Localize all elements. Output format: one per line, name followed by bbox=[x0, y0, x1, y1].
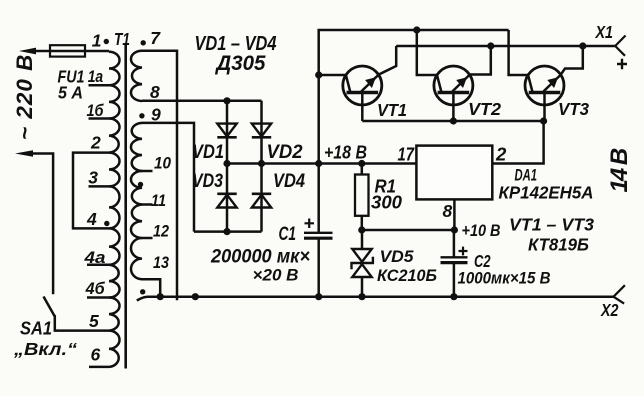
svg-text:5 А: 5 А bbox=[58, 83, 83, 103]
transformer T1 primary winding 1-6 bbox=[109, 52, 120, 86]
wire link tap 2 to tap 4 bbox=[73, 153, 109, 229]
fuse FU1 bbox=[50, 45, 85, 56]
svg-text:17: 17 bbox=[398, 144, 416, 165]
wire terminal 8 to bridge top rail bbox=[142, 100, 262, 103]
wire VT2 collector bbox=[417, 30, 437, 75]
wire VT3 collector bbox=[509, 30, 529, 75]
junction bridge top left bbox=[223, 97, 230, 104]
capacitor C1 bbox=[317, 164, 320, 233]
wire SA1 to T1 pin 5 bbox=[55, 315, 109, 331]
svg-text:1б: 1б bbox=[87, 102, 105, 120]
wire bridge right column bbox=[260, 101, 263, 232]
junction unnamed on X2 rail bbox=[192, 293, 199, 300]
junction VT2 collector on top rail bbox=[413, 26, 420, 33]
polarity dot winding 9 bbox=[139, 113, 144, 118]
polarity dot winding 13 bbox=[140, 289, 145, 294]
polarity dot winding 11 bbox=[138, 182, 143, 187]
wire bridge left column bbox=[226, 101, 229, 232]
diode VD3 bbox=[217, 195, 236, 208]
polarity dot winding 4 bbox=[104, 221, 109, 226]
svg-text:10: 10 bbox=[154, 155, 172, 173]
junction VT1 collector bbox=[315, 71, 322, 78]
svg-text:VT3: VT3 bbox=[558, 99, 589, 119]
junction R1 top on +18V bbox=[358, 160, 365, 167]
svg-text:×20 В: ×20 В bbox=[253, 266, 299, 285]
junction VT3 emitter bbox=[579, 42, 586, 49]
svg-text:6: 6 bbox=[91, 344, 101, 364]
wire VT2 emitter to rail bbox=[470, 46, 491, 75]
svg-text:КР142ЕН5А: КР142ЕН5А bbox=[499, 183, 594, 203]
svg-text:SA1: SA1 bbox=[20, 319, 52, 339]
svg-text:13: 13 bbox=[153, 254, 169, 272]
svg-text:VD4: VD4 bbox=[273, 171, 305, 192]
transformer T1 core bbox=[124, 45, 127, 369]
svg-text:VT2: VT2 bbox=[468, 99, 501, 119]
svg-text:7: 7 bbox=[150, 28, 161, 48]
junction C1 column on +18V bbox=[315, 160, 322, 167]
node +18V rail bbox=[227, 162, 416, 165]
T1 secondary winding 9-13 bbox=[131, 123, 142, 171]
svg-text:4а: 4а bbox=[83, 249, 105, 267]
tap stub 12 bbox=[142, 237, 153, 240]
zener diode VD5 bbox=[361, 230, 364, 249]
junction VD1-VD3 on +18V bbox=[223, 160, 230, 167]
T1 secondary winding 7-8 bbox=[131, 51, 142, 101]
label plus X1 bbox=[617, 59, 627, 69]
svg-text:+18 В: +18 В bbox=[324, 143, 367, 163]
transistor VT3 bbox=[525, 66, 564, 105]
tap stub 1б bbox=[89, 117, 110, 120]
transistor VT1 bbox=[343, 66, 382, 105]
svg-text:11: 11 bbox=[151, 192, 166, 210]
junction VD2-VD4 on +18V bbox=[258, 160, 265, 167]
junction bridge bottom bbox=[223, 228, 230, 235]
svg-text:4: 4 bbox=[86, 209, 97, 229]
wire VT3 emitter to rail bbox=[561, 46, 583, 75]
diode VD2 bbox=[252, 124, 271, 137]
plus sign C2 bbox=[459, 247, 468, 256]
svg-text:3: 3 bbox=[88, 168, 98, 188]
svg-text:КС210Б: КС210Б bbox=[377, 267, 437, 285]
svg-text:300: 300 bbox=[371, 193, 402, 213]
svg-text:9: 9 bbox=[151, 105, 161, 125]
wire terminal 7 down to X2 rail bbox=[142, 51, 177, 301]
wire DA1 pin 8 bbox=[453, 199, 456, 230]
tap stub 4a bbox=[87, 264, 109, 267]
svg-text:~ 220 В: ~ 220 В bbox=[12, 54, 37, 140]
terminal X1 bbox=[615, 36, 625, 56]
wire emitters to X1 bbox=[396, 45, 615, 48]
wire +18V up to collectors rail bbox=[319, 30, 509, 164]
plus sign C1 bbox=[305, 219, 315, 229]
svg-text:Т1: Т1 bbox=[114, 29, 130, 49]
mains arrow top bbox=[19, 48, 36, 55]
capacitor C2 bbox=[453, 230, 456, 257]
svg-text:4б: 4б bbox=[85, 280, 106, 298]
transistor VT2 bbox=[434, 66, 473, 105]
wire mains top to fuse and T1 pin 1 bbox=[34, 50, 109, 53]
tap stub terminal 6 bbox=[89, 366, 109, 369]
svg-text:1а: 1а bbox=[88, 68, 104, 86]
svg-text:14 В: 14 В bbox=[606, 148, 633, 192]
mains arrow bottom bbox=[15, 150, 33, 157]
svg-text:1: 1 bbox=[92, 30, 102, 50]
tap stub 11 bbox=[142, 203, 153, 206]
junction VT2 emitter bbox=[487, 42, 494, 49]
junction pin8-C2 bbox=[451, 226, 458, 233]
svg-text:+10 В: +10 В bbox=[462, 222, 501, 240]
junction VT2 base bbox=[450, 117, 457, 124]
svg-text:X1: X1 bbox=[595, 22, 613, 42]
svg-text:1000мк×15 В: 1000мк×15 В bbox=[458, 269, 551, 288]
diode VD1 bbox=[217, 124, 236, 137]
wire VT1 emitter to rail bbox=[379, 46, 396, 75]
wire VT1 collector bbox=[319, 74, 346, 77]
svg-text:VD1: VD1 bbox=[192, 142, 224, 163]
wire terminal 9 to bridge bottom rail bbox=[142, 123, 194, 232]
tap stub 1a bbox=[89, 84, 110, 87]
svg-text:5: 5 bbox=[89, 311, 99, 331]
wire mains bottom down to SA1 bbox=[31, 154, 53, 295]
svg-text:12: 12 bbox=[153, 223, 169, 241]
junction terminal 13 on X2 rail bbox=[157, 293, 164, 300]
svg-text:2: 2 bbox=[495, 144, 507, 165]
svg-text:„Вкл.“: „Вкл.“ bbox=[13, 339, 77, 359]
svg-text:КТ819Б: КТ819Б bbox=[528, 235, 589, 255]
svg-text:X2: X2 bbox=[600, 300, 619, 320]
resistor R1 bbox=[361, 164, 364, 175]
svg-text:VT1 – VT3: VT1 – VT3 bbox=[509, 215, 594, 235]
svg-text:8: 8 bbox=[150, 82, 160, 102]
junction C1 on X2 rail bbox=[315, 293, 322, 300]
polarity dot winding 7 bbox=[141, 40, 146, 45]
tap stub 3 bbox=[89, 185, 110, 188]
svg-text:VD2: VD2 bbox=[267, 142, 303, 163]
junction C2 on X2 rail bbox=[450, 293, 457, 300]
wire bridge bottom rail bbox=[194, 230, 262, 233]
svg-text:8: 8 bbox=[443, 201, 453, 221]
diode VD4 bbox=[252, 195, 271, 208]
svg-text:VD5: VD5 bbox=[380, 248, 415, 266]
svg-text:VT1: VT1 bbox=[377, 100, 407, 120]
switch SA1 lever bbox=[44, 297, 55, 317]
wire bases rail to DA1 pin 2 bbox=[362, 121, 543, 164]
tap stub 4б bbox=[87, 296, 109, 299]
terminal X2 bbox=[614, 285, 625, 303]
junction VD5 on X2 rail bbox=[358, 293, 365, 300]
svg-text:2: 2 bbox=[90, 133, 101, 153]
op-amp/regulator DA1 box bbox=[416, 146, 492, 200]
svg-text:200000 мк×: 200000 мк× bbox=[210, 247, 310, 268]
svg-text:C1: C1 bbox=[279, 224, 297, 245]
polarity dot winding 1 bbox=[104, 39, 109, 44]
svg-text:Д305: Д305 bbox=[214, 52, 265, 75]
svg-text:VD3: VD3 bbox=[192, 171, 223, 192]
junction R1-VD5 bbox=[358, 226, 365, 233]
junction VT3 base bbox=[540, 117, 547, 124]
tap stub 10 bbox=[142, 170, 153, 173]
node X2 rail bbox=[137, 297, 614, 301]
node +10V rail bbox=[362, 229, 455, 232]
wire terminal 13 to X2 rail bbox=[142, 279, 160, 297]
